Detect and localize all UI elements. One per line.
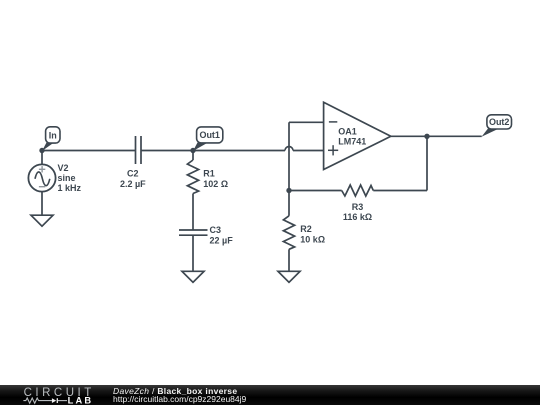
node label Out1 box — [197, 127, 223, 143]
svg-text:LAB: LAB — [68, 395, 94, 405]
resistor R3 zigzag — [342, 185, 374, 196]
wire: feedback left segment — [289, 190, 342, 192]
op-amp OA1 triangle body — [324, 102, 391, 169]
wire: R1 to C3 — [192, 194, 194, 231]
wire: V2 bottom to ground — [41, 192, 43, 216]
wire: C2 to hop — [141, 150, 285, 152]
svg-text:R3: R3 — [352, 202, 364, 212]
svg-text:2.2 µF: 2.2 µF — [120, 179, 146, 189]
resistor R2 zigzag — [283, 216, 294, 250]
svg-text:R2: R2 — [300, 224, 312, 234]
wire: vertical from - input down to feedback node — [288, 122, 290, 190]
wire hop over feedback wire — [285, 147, 293, 151]
wire: hop to op-amp + input — [293, 150, 324, 152]
node at In — [39, 148, 44, 153]
svg-text:C3: C3 — [210, 225, 222, 235]
wire: output node down to feedback line — [426, 136, 428, 190]
capacitor C2 — [136, 136, 142, 164]
svg-text:sine: sine — [58, 173, 76, 183]
V2 sine glyph — [35, 172, 50, 186]
V2 polarity - mark — [39, 186, 45, 188]
resistor R1 zigzag — [187, 160, 198, 194]
footer credit text — [113, 387, 246, 404]
svg-text:116 kΩ: 116 kΩ — [343, 212, 372, 222]
svg-text:OA1: OA1 — [338, 127, 357, 137]
svg-text:R1: R1 — [203, 169, 215, 179]
wire: op-amp output to Out2 terminal — [391, 135, 482, 137]
CircuitLab logo — [0, 385, 100, 405]
svg-text:Out2: Out2 — [489, 117, 510, 127]
node label Out2 pointer — [482, 129, 500, 137]
wire: R2 to ground — [288, 249, 290, 271]
node at Out1 — [190, 148, 195, 153]
node label In pointer — [42, 143, 54, 152]
svg-text:10 kΩ: 10 kΩ — [300, 234, 325, 244]
wire: Out1 node down to R1 — [192, 151, 194, 161]
svg-text:102 Ω: 102 Ω — [203, 179, 228, 189]
svg-text:C2: C2 — [127, 169, 139, 179]
capacitor C3 — [179, 230, 208, 235]
node at feedback/R2 junction — [286, 188, 291, 193]
op-amp - pin symbol — [329, 121, 337, 123]
svg-text:1 kHz: 1 kHz — [58, 183, 82, 193]
ground for R2 — [278, 271, 300, 282]
op-amp + pin symbol — [328, 145, 338, 155]
node at op-amp output — [424, 134, 429, 139]
svg-text:LM741: LM741 — [338, 137, 366, 147]
voltage source V2 circle — [28, 164, 55, 191]
node label Out1 pointer — [193, 143, 208, 152]
footer bar — [0, 385, 540, 405]
wire: inverting input horizontal — [289, 121, 324, 123]
svg-text:Out1: Out1 — [199, 130, 220, 140]
V2 polarity + mark — [39, 166, 45, 187]
ground for C3 — [182, 271, 204, 282]
svg-text:In: In — [49, 130, 57, 140]
wire: V2 node to C2 left plate — [42, 150, 136, 152]
ground for V2 — [31, 215, 53, 226]
wire: feedback node to R2 — [288, 191, 290, 216]
svg-text:22 µF: 22 µF — [210, 236, 234, 246]
node label Out2 box — [487, 115, 512, 129]
svg-text:V2: V2 — [58, 163, 69, 173]
wire: C3 to ground — [192, 235, 194, 271]
node label In box — [46, 127, 60, 143]
wire: feedback right segment — [373, 190, 427, 192]
wire: node to V2 top — [41, 151, 43, 165]
